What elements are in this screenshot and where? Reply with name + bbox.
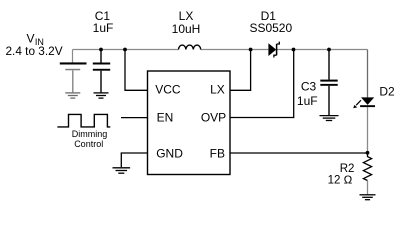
wire top rail right segment (277, 49, 367, 51)
wire R2 to ground (367, 181, 369, 195)
capacitor C1 (93, 50, 110, 93)
LED D2 (353, 97, 375, 108)
wire OVP (230, 50, 294, 118)
svg-text:Dimming: Dimming (72, 129, 108, 139)
svg-text:1uF: 1uF (297, 94, 318, 108)
node dot (C1 / rail) (99, 48, 103, 52)
node dot (FB / R2) (366, 151, 370, 155)
ground (R2) (360, 195, 376, 200)
wire top rail middle segment (201, 49, 269, 51)
svg-text:OVP: OVP (201, 111, 226, 125)
node dot (VCC tap on rail) (123, 48, 127, 52)
node dot (OVP tap on rail) (292, 48, 296, 52)
svg-text:C3: C3 (301, 80, 317, 94)
svg-text:2.4 to 3.2V: 2.4 to 3.2V (6, 44, 63, 58)
svg-text:VCC: VCC (155, 82, 181, 96)
capacitor C3 (320, 50, 337, 116)
wire top rail left segment (73, 49, 179, 51)
label R2 (328, 163, 355, 187)
svg-text:LX: LX (210, 82, 225, 96)
ground (GND pin) (113, 168, 131, 173)
ground (C3) (320, 116, 339, 121)
label C1 (93, 9, 114, 35)
label C3 (297, 80, 318, 109)
svg-text:SS0520: SS0520 (249, 21, 292, 35)
wire FB (230, 152, 368, 154)
IC U1 (148, 71, 231, 175)
node dot (LX tap on rail) (249, 48, 253, 52)
svg-text:1uF: 1uF (93, 21, 114, 35)
svg-text:12 Ω: 12 Ω (328, 175, 353, 187)
wire LED to FB node (367, 107, 369, 153)
label D1 (249, 9, 292, 35)
label VIN (6, 31, 63, 57)
label Dimming Control (72, 129, 108, 149)
pulse waveform (dimming control source) (57, 114, 110, 127)
svg-text:R2: R2 (340, 163, 355, 175)
ground (C1) (94, 93, 109, 98)
ground (battery) (65, 93, 80, 98)
inductor LX (179, 45, 201, 49)
label LX inductor (172, 9, 201, 36)
svg-text:EN: EN (157, 111, 174, 125)
diode D1 (Schottky) (268, 42, 279, 58)
wire LX pin to rail (230, 50, 251, 91)
wire rail corner down to LED (367, 50, 369, 98)
wire EN (121, 117, 148, 119)
svg-text:GND: GND (156, 147, 183, 161)
wire VCC (125, 50, 148, 91)
battery B1 (60, 50, 87, 93)
svg-text:D2: D2 (379, 85, 395, 99)
resistor R2 (363, 153, 371, 181)
svg-text:FB: FB (210, 147, 225, 161)
wire GND pin (121, 153, 147, 167)
svg-text:10uH: 10uH (172, 22, 201, 36)
node dot (C3 tap on rail) (327, 48, 331, 52)
svg-text:Control: Control (74, 139, 103, 149)
